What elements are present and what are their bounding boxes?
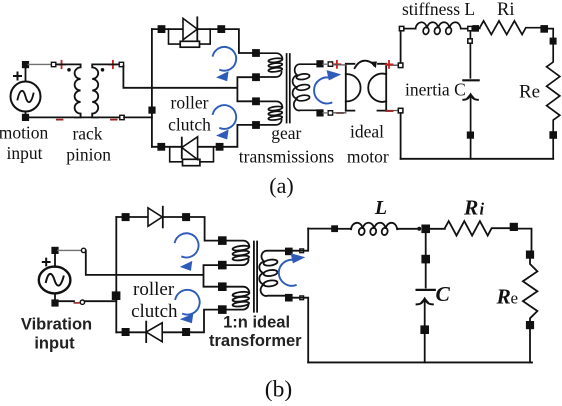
port Ri right [541, 26, 547, 32]
port capacitor bottom (b) [421, 326, 428, 333]
node square right of bottom diode [217, 144, 223, 150]
transformer gear primary winding 2 [259, 101, 282, 125]
svg-text:stiffness L: stiffness L [402, 0, 475, 19]
diode D2 snubber resistor box [183, 159, 200, 165]
bus vertical (b) [115, 217, 117, 332]
port capacitor top (b) [422, 256, 429, 263]
svg-text:Ri: Ri [497, 0, 514, 20]
svg-text:R: R [496, 285, 511, 309]
inductor stiffness L [404, 22, 468, 35]
diode D4 (b bottom) [146, 322, 162, 343]
blue arrow clockwise (b) bottom [175, 290, 199, 323]
wire Ri corner down (b) [517, 229, 531, 251]
svg-text:(b): (b) [265, 377, 292, 402]
svg-text:clutch: clutch [131, 301, 178, 322]
junction dot and square after L (b) [417, 227, 421, 231]
svg-text:Vibration: Vibration [21, 316, 92, 334]
port rack secondary top [119, 62, 123, 66]
port Re top (b) [527, 251, 534, 258]
svg-text:gear: gear [271, 123, 301, 143]
wire bus vertical [151, 29, 153, 147]
terminal gear secondary bottom [317, 110, 323, 116]
node square right of bottom diode (b) [183, 329, 189, 335]
junction node on bus [149, 107, 155, 113]
wire top rail to Ri [478, 27, 480, 29]
terminal secondary top (b) [286, 248, 292, 254]
diode D2 snubber loop [170, 147, 214, 162]
wire bottom diode rail [152, 125, 253, 147]
port capacitor top [468, 39, 472, 43]
node square left of bottom diode [158, 144, 164, 150]
port motor right bottom [398, 108, 403, 113]
node square left of top diode [158, 26, 164, 32]
svg-text:input: input [7, 143, 43, 163]
capacitor inertia C [463, 80, 478, 100]
capacitor C branch (b) [425, 232, 427, 255]
svg-text:L: L [374, 197, 387, 219]
wire secondary top to RLC corner [292, 228, 308, 250]
transformer 1:n primary winding 1 [226, 241, 250, 266]
transformer 1:n secondary winding [259, 251, 285, 296]
transformer 1:n core [254, 242, 257, 312]
svg-text:i: i [480, 200, 485, 219]
wire source bottom to bus [58, 300, 117, 302]
node square left of top diode (b) [122, 214, 128, 220]
node square right of top diode (b) [183, 214, 189, 220]
svg-text:motor: motor [347, 146, 389, 166]
svg-text:inertia C: inertia C [405, 79, 466, 99]
red minus source bottom [74, 302, 78, 304]
port source bottom [80, 300, 84, 304]
svg-text:transmissions: transmissions [239, 146, 334, 166]
junction after L: open square and filled square [468, 26, 472, 30]
inductor L (b) [337, 223, 416, 236]
wire source top to rack [28, 62, 56, 66]
svg-text:motion: motion [0, 122, 49, 142]
svg-text:ideal: ideal [350, 121, 384, 141]
terminal T1 gear [253, 50, 259, 56]
junction node on bus (b) [113, 292, 120, 299]
red minus motor right [387, 110, 393, 112]
svg-text:transformer: transformer [209, 332, 302, 350]
capacitor C (b) [417, 290, 435, 305]
ideal motor gyrator [333, 61, 398, 113]
terminal T2 transformer (b) [219, 262, 226, 269]
svg-text:R: R [463, 196, 478, 220]
port motor right top [398, 63, 403, 68]
diode D1 snubber loop [169, 29, 211, 44]
svg-text:roller: roller [133, 279, 175, 300]
svg-text:(a): (a) [269, 173, 293, 198]
wire capacitor to bottom rail (b) [424, 300, 426, 326]
wire Re to bottom rail (b) [530, 328, 532, 362]
svg-text:roller: roller [171, 93, 209, 113]
terminal T1 transformer (b) [219, 237, 226, 244]
transformer 1:n primary winding 2 [226, 287, 250, 310]
transformer rack pinion primary [57, 64, 81, 117]
port motor left top [328, 62, 332, 66]
blue arrow clockwise middle [213, 105, 236, 139]
wire bottom rail (a) [401, 158, 554, 160]
transformer rack pinion secondary [92, 64, 119, 117]
capacitor inertia C branch wire top [469, 31, 471, 78]
resistor Ri [480, 21, 541, 35]
source AC motion input [11, 62, 41, 120]
port capacitor bottom [468, 132, 474, 138]
terminal T2 gear [253, 74, 259, 80]
svg-text:1:n ideal: 1:n ideal [223, 313, 290, 331]
wire top diode rail (b) [116, 217, 219, 241]
terminal gear secondary top [317, 61, 323, 67]
svg-text:Re: Re [519, 82, 540, 103]
wire source top port down to center tap line [86, 250, 219, 286]
port Re bottom (b) [527, 322, 534, 329]
blue arrow transformer (b) counterclockwise [279, 253, 306, 286]
svg-text:pinion: pinion [66, 144, 111, 164]
port source top [81, 248, 85, 252]
wire bottom rail (b) [308, 361, 532, 363]
port inductor L left (b) [332, 226, 337, 231]
wire bottom diode rail (b) [116, 310, 219, 333]
wire motor to bottom rail [400, 113, 402, 159]
red plus motor left [333, 61, 340, 68]
resistor Ri (b) [445, 221, 510, 236]
svg-text:input: input [34, 335, 75, 353]
port motor left bottom [328, 111, 332, 115]
transformer gear primary winding 1 [259, 53, 282, 77]
wire motor to top rail [400, 31, 402, 63]
terminal T3 gear [253, 98, 259, 104]
diode D1 [183, 17, 197, 40]
wire Re to bottom rail [552, 138, 554, 159]
blue arrow gear counterclockwise [314, 70, 341, 103]
diode D3 (b top) [148, 207, 163, 228]
port Re bottom [550, 132, 556, 138]
transformer gear core [287, 54, 290, 123]
diode D2 [182, 137, 198, 160]
terminal T4 transformer (b) [219, 306, 226, 313]
transformer gear secondary winding [293, 64, 317, 110]
node square left of bottom diode (b) [122, 329, 128, 335]
node red minus marks [57, 119, 117, 121]
svg-text:rack: rack [72, 124, 102, 144]
wire Ri corner down [547, 29, 553, 38]
wire to Ri (b) [429, 228, 445, 230]
svg-text:e: e [511, 289, 519, 308]
port Re top [550, 38, 555, 43]
blue arrow clockwise top [213, 47, 236, 81]
red minus motor left [337, 112, 343, 114]
resistor Re [547, 44, 560, 132]
node red plus right winding [109, 61, 116, 68]
terminal secondary bottom (b) [286, 295, 292, 301]
wire rack top port down and right to gear center tap [123, 66, 253, 101]
wire secondary bottom to bottom rail [292, 298, 308, 363]
wire rack bottom port to bus [124, 116, 152, 118]
wire top diode rail [152, 29, 253, 53]
node red plus left winding [58, 61, 65, 68]
port Ri right (b) [511, 224, 518, 231]
resistor Re (b) [523, 258, 538, 322]
wire capacitor to bottom rail [470, 96, 472, 132]
port inductor L left [399, 26, 403, 30]
svg-text:clutch: clutch [168, 115, 211, 135]
diode D1 snubber resistor box [180, 41, 199, 47]
blue arrow clockwise (b) top [175, 233, 199, 271]
svg-text:C: C [436, 282, 451, 306]
port rack secondary bottom [120, 115, 124, 119]
terminal T4 gear [253, 122, 259, 128]
terminal T3 transformer (b) [219, 283, 226, 290]
node square right of top diode [218, 26, 224, 32]
wire top rail (b) left [308, 228, 331, 230]
source AC vibration input [39, 248, 71, 306]
wire source top to port [58, 249, 81, 251]
wire source bottom to rack [28, 116, 119, 118]
red plus motor right [386, 61, 393, 68]
